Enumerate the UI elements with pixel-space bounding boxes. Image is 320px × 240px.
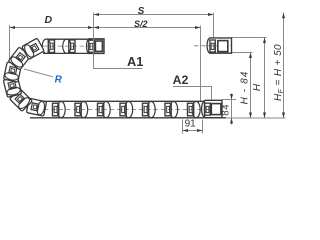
S/2 left arrow: [94, 26, 100, 29]
D left arrow: [10, 26, 16, 29]
detached bracket centerline: [194, 45, 232, 47]
svg-text:A1: A1: [127, 54, 143, 69]
link unit 6: [165, 102, 178, 118]
bend link 6: [22, 38, 44, 59]
dimension line S top: [94, 14, 214, 16]
H-84 extension y=52.2: [232, 52, 253, 54]
A1 leader: [94, 54, 143, 69]
dimension line S: [10, 27, 94, 29]
ground baseline: [222, 117, 286, 119]
link unit 7: [188, 102, 201, 118]
svg-text:84: 84: [221, 104, 232, 116]
svg-text:H: H: [252, 83, 263, 91]
bottom run centerline: [44, 109, 222, 111]
svg-text:A2: A2: [173, 73, 189, 87]
84 bottom outside arrow (up): [230, 118, 233, 124]
91 ext right: [202, 120, 204, 134]
S left arrow: [94, 13, 100, 16]
bend link 3: [3, 77, 21, 98]
91 dim line: [183, 130, 203, 132]
D right arrow: [88, 26, 94, 29]
bottom run top rail: [36, 100, 204, 102]
svg-text:D: D: [45, 14, 53, 26]
H_F top arrow: [282, 13, 285, 18]
A2 leader: [173, 87, 212, 101]
H_F bottom arrow: [282, 113, 285, 119]
H line: [264, 38, 266, 119]
91 right arrow: [197, 129, 203, 132]
top run centerline: [43, 45, 104, 47]
R leader: [24, 69, 53, 77]
top link unit 2: [63, 39, 75, 53]
bend link 1: [26, 98, 46, 116]
bend link 2: [10, 89, 33, 112]
bend link 5: [8, 47, 30, 70]
S right arrow: [208, 13, 214, 16]
detached moving end bracket (travel position, top right): [207, 38, 231, 53]
H extension top y=37.8: [232, 37, 267, 39]
link unit 3: [98, 102, 111, 118]
extension line x=93.5 overlay through bracket: [93, 38, 95, 54]
top run bottom rail: [43, 52, 104, 54]
H bottom arrow: [263, 113, 266, 119]
link unit 4: [120, 102, 133, 118]
H_F line: [283, 13, 285, 118]
bend link 4: [4, 62, 22, 82]
extension line S/2 right x=200.3: [200, 26, 202, 101]
84 extension line: [222, 99, 236, 101]
svg-text:S: S: [138, 6, 145, 17]
H top arrow: [263, 38, 266, 44]
84 top outside arrow (down): [230, 94, 233, 100]
top run top rail: [47, 38, 104, 40]
bottom run links: [53, 102, 201, 118]
moving end bracket (end of top run): [87, 39, 104, 54]
H-84 bottom arrow: [249, 113, 252, 119]
H-84 top arrow: [249, 53, 252, 59]
label 91: [184, 119, 198, 130]
link unit 2: [75, 102, 88, 118]
dimension line S/2: [94, 27, 201, 29]
91 left arrow: [183, 129, 189, 132]
top link unit 1: [42, 39, 54, 53]
bottom run bottom rail: [30, 117, 226, 119]
link unit 1: [53, 102, 66, 118]
svg-text:S/2: S/2: [134, 19, 148, 29]
84 dim vertical: [231, 94, 233, 125]
S/2 right arrow: [195, 26, 201, 29]
extension line left (D): [9, 25, 11, 97]
extension line center x=93.8: [93, 13, 95, 69]
fixed end bracket (bottom right): [202, 100, 222, 117]
svg-text:R: R: [55, 74, 63, 85]
link unit 5: [143, 102, 156, 118]
svg-text:H - 84: H - 84: [239, 71, 250, 105]
extension line S right x=213.5: [213, 13, 215, 39]
svg-text:91: 91: [185, 119, 197, 130]
91 ext left: [182, 120, 184, 134]
H-84 line: [250, 53, 252, 119]
